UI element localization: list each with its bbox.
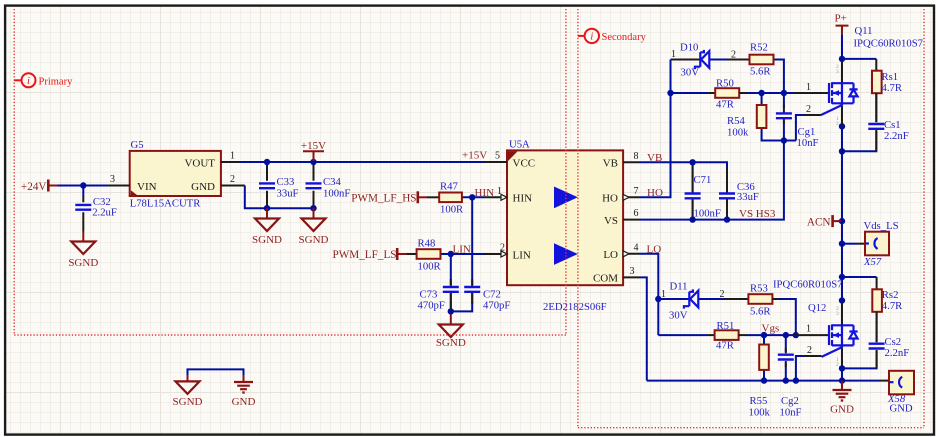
svg-text:R50: R50 [716,78,734,90]
node C33 bottom [264,205,270,211]
ground GND tie right [232,375,256,408]
svg-text:VB: VB [603,158,618,170]
svg-text:33uF: 33uF [277,188,299,200]
node C73 bottom [448,308,454,314]
svg-text:R54: R54 [727,115,745,127]
wire HIN node down to C72 [471,197,473,285]
ground GND earth under Q12 [830,381,854,416]
node X57 [839,241,845,247]
node C34 bottom [310,205,316,211]
ground SGND under C34 [299,208,329,246]
wire VS row to vertical up [640,141,784,220]
node Q12 drain [839,297,845,303]
svg-text:X57: X57 [863,256,882,268]
svg-text:8: 8 [634,151,639,162]
node R53 join [793,332,799,338]
svg-text:+24V: +24V [21,181,47,193]
wire Rs1 to Cs1 [875,92,877,122]
svg-text:VOUT: VOUT [184,158,215,170]
resistor Rs1 [872,59,903,94]
svg-text:IPQC60R010S7: IPQC60R010S7 [854,38,924,50]
transistor Q12 [773,279,858,369]
wire C71 top branch [692,162,694,192]
svg-text:5: 5 [495,151,500,162]
svg-text:3: 3 [836,69,839,75]
svg-text:HO: HO [647,187,663,199]
svg-text:1: 1 [230,151,235,162]
svg-text:LO: LO [603,249,618,261]
svg-text:C33: C33 [277,176,295,188]
wire D10 row [671,59,729,61]
svg-text:Cg2: Cg2 [781,395,799,407]
ground SGND under C73 [436,315,466,350]
svg-text:SGND: SGND [173,396,203,408]
svg-text:1: 1 [497,186,502,197]
svg-text:IPQC60R010S7: IPQC60R010S7 [773,279,843,291]
wire Cg2 vertical [785,335,787,381]
svg-text:Vds_LS: Vds_LS [864,220,899,232]
svg-text:7: 7 [634,186,639,197]
svg-text:Secondary: Secondary [602,32,647,43]
svg-text:33uF: 33uF [737,191,759,203]
svg-text:2ED2182S06F: 2ED2182S06F [543,301,607,313]
node C33 top [264,159,270,165]
svg-text:i: i [27,76,30,87]
node Cs1 join [839,148,845,154]
wire +24V rail to VIN [58,185,108,187]
wire HO right and up to gate network [640,60,671,198]
wire X57 branch [842,243,857,245]
svg-text:LO: LO [647,244,662,256]
svg-text:G5: G5 [131,139,144,151]
blanket Secondary left edge [577,9,579,428]
node Q12 source rail [839,377,845,383]
svg-text:2: 2 [500,243,505,254]
svg-text:VS: VS [604,215,618,227]
node P+/Rs1 [839,56,845,62]
svg-text:47R: 47R [716,340,735,352]
ground SGND under C32 [68,232,98,270]
svg-text:470pF: 470pF [418,300,445,312]
svg-text:30V: 30V [681,67,700,79]
svg-text:i: i [590,32,593,43]
svg-text:U5A: U5A [509,139,530,151]
wire C73 bottom stub [450,293,452,314]
svg-text:VIN: VIN [137,181,157,193]
wire Cs1 bottom to rail [842,131,876,151]
svg-text:6: 6 [634,208,639,219]
wire D11 row [658,298,724,300]
wire C33 branch top [266,162,268,173]
node D11 tap [655,296,661,302]
port PWM_LF_LS [332,248,406,261]
svg-text:3: 3 [630,266,635,277]
svg-text:10nF: 10nF [797,137,819,149]
capacitor C73 [418,279,459,312]
svg-text:HIN: HIN [513,193,533,205]
svg-text:1: 1 [671,49,676,60]
node Cg2 top [783,332,789,338]
svg-text:4: 4 [634,242,639,253]
svg-text:1: 1 [806,324,811,335]
svg-text:R48: R48 [418,237,436,249]
wire R50 row / gate row [671,92,796,94]
resistor R55 [749,345,771,419]
node R54 top [758,90,764,96]
wire Rs2 to Cs2 [876,312,878,342]
port PWM_LF_HS [351,191,427,204]
resistor R53 [748,283,780,318]
node +24V/C32 [80,182,86,188]
ground SGND tie left [173,375,203,408]
connector X57 [857,220,899,268]
svg-text:100R: 100R [418,260,442,272]
wire Rs1 branch top [842,58,876,60]
directive Secondary [578,29,647,43]
wire R54 branch [762,93,796,141]
wire VOUT to VCC (+15V rail) [240,161,484,163]
wire C34 branch top [313,162,315,173]
power +15V [301,140,326,161]
wire LO right and down [640,254,658,335]
pin 8 VB [623,161,640,163]
wire Q12 source to bottom rail [841,365,843,381]
svg-text:100R: 100R [440,204,464,216]
svg-text:2: 2 [230,174,235,185]
wire Vgs row [658,334,795,336]
svg-text:SGND: SGND [299,234,329,246]
svg-text:VB: VB [647,152,662,164]
power P+ [835,13,849,35]
node R55 bottom [761,377,767,383]
wire R47 to HIN [462,196,484,198]
node Cg2 bottom [783,377,789,383]
svg-text:1: 1 [806,82,811,93]
svg-text:2: 2 [731,50,736,61]
svg-text:100nF: 100nF [694,208,721,220]
capacitor C36 [719,167,759,217]
node C71 top [689,159,695,165]
wire R52 right down to gate row [774,60,784,94]
capacitor C34 [306,166,351,205]
directive Primary [14,73,73,87]
wire C32 branch [82,186,84,197]
resistor Rs2 [872,277,903,312]
svg-text:Vgs: Vgs [762,323,780,335]
pin 2 GND [221,185,245,187]
svg-text:L78L15ACUTR: L78L15ACUTR [130,197,202,209]
svg-text:2: 2 [807,345,812,356]
wire R55 branch [763,335,765,381]
svg-text:3: 3 [110,174,115,185]
node LIN [448,251,454,257]
pin 4 LO [623,253,640,255]
svg-text:HO: HO [602,193,618,205]
svg-text:Q12: Q12 [808,302,826,314]
svg-text:2.2nF: 2.2nF [884,130,909,142]
pin 5 VCC [484,161,507,163]
svg-text:R52: R52 [750,42,768,54]
svg-text:R53: R53 [750,283,768,295]
svg-text:VS HS3: VS HS3 [739,208,776,220]
pin 1 VOUT [221,161,240,163]
svg-text:30V: 30V [669,310,688,322]
blanket Secondary bottom edge [578,427,924,429]
node C36 bottom [724,216,730,222]
svg-text:2: 2 [720,289,725,300]
wire C33 bottom to rail2 [266,200,268,209]
capacitor C71 [685,166,721,220]
node HIN [469,194,475,200]
node Rs2 branch [839,274,845,280]
zener D10 [671,42,750,79]
svg-text:VCC: VCC [513,157,536,169]
regulator G5 L78L15ACUTR [108,139,245,209]
node Cg1 bottom [781,137,787,143]
IC U5A 2ED2182S06F [484,139,640,314]
wire COM down to bottom rail [640,277,647,380]
pin 3 VIN [108,185,130,187]
svg-text:100k: 100k [749,407,771,419]
node R55 top [761,332,767,338]
node C71 bottom [689,216,695,222]
svg-text:R47: R47 [440,181,458,193]
amplifier triangle 2 [554,243,578,265]
amplifier triangle 1 [554,187,578,209]
wire rail ACN to Rs2/Q12 [841,244,843,301]
svg-text:1: 1 [661,289,666,300]
blanket Primary bottom edge [14,334,566,336]
svg-text:5.6R: 5.6R [750,306,771,318]
wire GND pin2 down and along [245,186,314,209]
zener D11 [661,281,748,322]
capacitor Cs1 [868,93,908,151]
svg-text:LIN: LIN [513,249,531,261]
svg-text:D11: D11 [670,281,688,293]
wire Q11 pin2 [796,115,803,141]
svg-text:+15V: +15V [462,150,487,162]
capacitor C32 [75,196,117,232]
resistor R54 [727,105,766,139]
svg-text:2: 2 [806,104,811,115]
resistor R52 [750,42,774,78]
svg-text:+15V: +15V [301,140,326,152]
svg-text:Q11: Q11 [855,25,873,37]
port ACN [807,215,841,228]
svg-text:3: 3 [836,311,839,317]
capacitor Cg1 [776,105,819,150]
wire C34 bottom to rail2 [313,200,315,209]
node Cg1 top [781,90,787,96]
svg-text:2.2uF: 2.2uF [92,207,117,219]
svg-text:SGND: SGND [436,337,466,349]
node R50 tap [667,90,673,96]
wire LIN node down to C73 [450,254,452,285]
resistor R50 [707,78,747,111]
svg-text:D10: D10 [680,42,698,54]
pin 1 HIN [484,196,507,198]
wire Cg1 vertical [783,93,785,141]
wire C71 bottom [692,200,694,220]
svg-text:GND: GND [232,396,256,408]
ground SGND under C33 [252,208,282,246]
node Cs2 join [839,365,845,371]
connector X58 [880,371,914,415]
wire P+ down to Q11 drain node [841,34,843,59]
node Q12 pin2 rail [793,377,799,383]
wire bottom rail [647,380,880,382]
port +24V [21,180,58,194]
blanket Secondary right edge [923,9,925,428]
wire R48 to LIN [441,253,485,255]
svg-text:GND: GND [191,181,215,193]
svg-text:100k: 100k [727,127,749,139]
wire SGND-GND tie [188,369,244,375]
wire Cs2 bottom to rail [842,351,877,368]
wire C36 bottom [726,200,728,220]
svg-text:R51: R51 [717,320,735,332]
capacitor Cs2 [869,312,910,369]
wire C72 bottom to C73 bottom [451,293,472,311]
resistor R47 [427,181,464,216]
pin 6 VS [623,219,640,221]
svg-text:5.6R: 5.6R [750,66,771,78]
capacitor C33 [259,166,299,206]
svg-text:COM: COM [593,273,618,285]
svg-text:GND: GND [890,403,913,415]
svg-text:Primary: Primary [39,76,74,87]
svg-text:47R: 47R [716,99,735,111]
svg-text:SGND: SGND [68,257,98,269]
svg-text:4.7R: 4.7R [882,300,903,312]
wire Rs2 branch [842,276,877,278]
svg-text:LIN: LIN [453,244,471,256]
svg-text:GND: GND [830,404,854,416]
wire ACN stub [838,220,842,222]
node ACN [839,218,845,224]
blanket Primary right edge [565,9,567,335]
transistor Q11 [793,25,924,127]
pin 7 HO [623,196,640,198]
svg-text:100nF: 100nF [323,188,350,200]
svg-text:C71: C71 [694,174,712,186]
pin 3 COM [623,276,640,278]
wire VB to caps C71 C36 [640,162,727,192]
svg-text:2.2nF: 2.2nF [885,347,910,359]
svg-text:C34: C34 [323,176,341,188]
node Q11 source [839,123,845,129]
svg-text:470pF: 470pF [483,300,510,312]
wire Q12 pin2 [796,356,803,381]
wire R53 right down to Vgs row [773,299,796,335]
pin 2 LIN [484,253,507,255]
wire Q11 source rail down to ACN [841,126,843,243]
resistor R51 [707,320,747,352]
svg-text:ACN: ACN [807,217,831,229]
svg-text:10nF: 10nF [780,407,802,419]
node C34 top [310,159,316,165]
capacitor C72 [464,279,510,312]
svg-text:2: 2 [836,121,839,127]
svg-text:R55: R55 [750,395,768,407]
svg-text:2: 2 [836,362,839,368]
svg-text:PWM_LF_LS: PWM_LF_LS [332,249,396,261]
blanket Primary left edge [13,9,15,335]
svg-text:PWM_LF_HS: PWM_LF_HS [351,192,416,204]
capacitor Cg2 [778,348,802,419]
svg-text:P+: P+ [835,13,847,25]
resistor R48 [407,237,442,272]
svg-text:SGND: SGND [252,234,282,246]
svg-text:4.7R: 4.7R [882,82,903,94]
